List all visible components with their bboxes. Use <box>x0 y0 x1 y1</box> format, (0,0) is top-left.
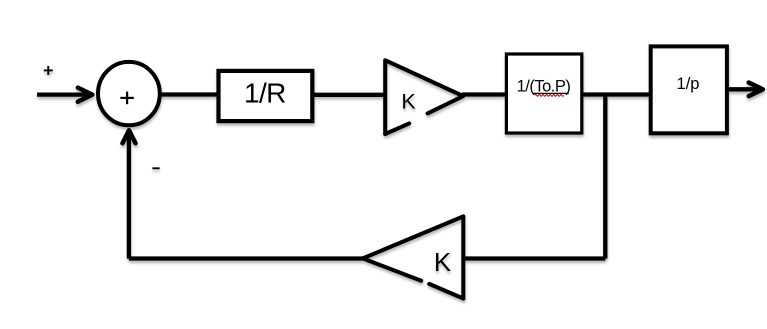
svg-text:1/R: 1/R <box>244 78 286 109</box>
svg-text:1/p: 1/p <box>677 75 700 93</box>
svg-text:K: K <box>434 247 452 277</box>
svg-text:K: K <box>401 90 416 114</box>
